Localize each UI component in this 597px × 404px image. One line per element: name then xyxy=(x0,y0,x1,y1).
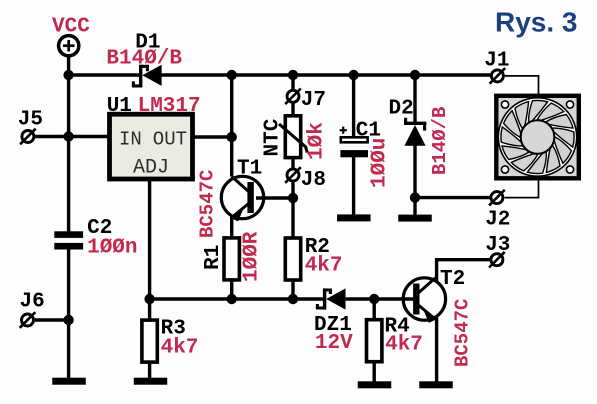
svg-text:OUT: OUT xyxy=(153,129,187,151)
fan M1 (load connected via J1/J2) xyxy=(496,96,579,179)
ground (R3) xyxy=(134,378,168,385)
ground (D2 node) xyxy=(398,215,432,222)
junction OUT node xyxy=(227,132,237,142)
svg-text:J7: J7 xyxy=(301,89,326,112)
svg-text:Rys. 3: Rys. 3 xyxy=(495,6,578,37)
wire bottom net left (ADJ node to DZ1) xyxy=(150,297,323,300)
ground (T2 emitter) xyxy=(419,381,453,388)
wire VCC column upper xyxy=(67,55,70,231)
wire J5 to LM317 IN xyxy=(35,135,109,138)
VCC power symbol xyxy=(59,36,79,56)
svg-text:4k7: 4k7 xyxy=(305,254,343,277)
svg-text:VCC: VCC xyxy=(52,16,90,39)
connector J2 xyxy=(489,190,505,206)
svg-text:J8: J8 xyxy=(301,169,326,192)
wire LM317 ADJ down to R3 xyxy=(148,179,151,320)
svg-text:J2: J2 xyxy=(485,209,510,232)
capacitor C1 100u (polarized) xyxy=(340,127,368,158)
svg-text:J1: J1 xyxy=(484,49,509,72)
wire J2 to fan (thin) xyxy=(505,180,539,198)
wire node to R4 xyxy=(373,299,376,320)
svg-text:J3: J3 xyxy=(485,234,510,257)
svg-text:LM317: LM317 xyxy=(138,95,201,118)
wire rail to D2 cathode xyxy=(413,75,416,122)
wire R4 to ground xyxy=(373,361,376,382)
diode D2 B140/B (schottky, cathode up) xyxy=(404,118,426,146)
wire rail to J7 xyxy=(291,75,294,90)
svg-text:1Øk: 1Øk xyxy=(305,122,328,160)
junction J5 / IN xyxy=(63,131,73,141)
resistor R3 4k7 xyxy=(142,320,157,362)
thermistor NTC 10k xyxy=(279,116,307,158)
svg-text:IN: IN xyxy=(119,129,142,151)
connector J6 xyxy=(20,312,36,328)
ground (R4) xyxy=(358,381,392,388)
zener diode DZ1 12V (cathode left) xyxy=(317,288,345,309)
wire D2 node to J2 xyxy=(415,196,490,199)
svg-text:T1: T1 xyxy=(237,158,262,181)
connector J7 xyxy=(285,89,301,105)
wire top rail right (D1 anode to J1) xyxy=(161,73,490,76)
junction VCC / rail xyxy=(63,70,73,80)
connector J3 xyxy=(489,252,505,268)
junction T1 base / NTC column xyxy=(288,193,298,203)
wire T1 emitter to R1 xyxy=(230,217,233,239)
svg-text:J5: J5 xyxy=(18,109,43,132)
junction ADJ / R3 xyxy=(144,294,154,304)
wire LM317 OUT to node xyxy=(193,135,232,138)
connector J5 xyxy=(20,129,36,145)
wire J1 to fan (thin) xyxy=(505,76,539,96)
svg-text:ADJ: ADJ xyxy=(133,157,169,180)
wire T1 base xyxy=(256,196,293,199)
wire R1 to bottom node xyxy=(230,280,233,300)
wire R3 to ground xyxy=(148,361,151,379)
junction R4 / T2 base xyxy=(369,294,379,304)
resistor R2 4k7 xyxy=(285,238,300,280)
svg-text:T2: T2 xyxy=(440,268,465,291)
wire D2 anode to ground (through J2 node) xyxy=(413,146,416,216)
svg-text:1ØØR: 1ØØR xyxy=(240,231,263,282)
connector J1 xyxy=(490,68,506,84)
transistor T2 BC547C (NPN, base left) xyxy=(403,278,445,323)
wire J8 to R2 (through T1 base node) xyxy=(291,182,294,239)
junction rail / OUT column xyxy=(227,70,237,80)
wire VCC column lower (C2 to ground) xyxy=(67,249,70,378)
wire OUT node up to rail xyxy=(230,75,233,137)
wire node to T1 collector xyxy=(230,137,233,177)
svg-text:U1: U1 xyxy=(107,95,132,118)
resistor R1 100R xyxy=(224,238,239,280)
junction D2 anode / J2 xyxy=(410,192,420,202)
svg-text:4k7: 4k7 xyxy=(161,336,199,359)
svg-text:D2: D2 xyxy=(389,97,414,120)
resistor R4 4k7 xyxy=(367,320,382,362)
wire J7 to NTC xyxy=(291,104,294,117)
svg-text:B14Ø/B: B14Ø/B xyxy=(429,107,451,175)
junction R2 / bottom net xyxy=(288,294,298,304)
svg-text:BC547C: BC547C xyxy=(196,170,218,238)
op-amp/regulator U1 LM317 box xyxy=(110,114,193,179)
wire NTC to J8 xyxy=(291,157,294,169)
connector J8 xyxy=(285,167,301,183)
svg-text:R1: R1 xyxy=(202,245,225,270)
wire J3 to T2 collector xyxy=(437,260,490,283)
wire DZ1 anode to T2 base xyxy=(346,297,414,300)
wire top rail left (to D1 cathode) xyxy=(69,73,141,76)
wire rail to C1 xyxy=(352,75,355,138)
junction J6 / C2 column xyxy=(63,315,73,325)
ground (C1) xyxy=(337,214,371,221)
junction rail / D2 xyxy=(410,70,420,80)
svg-text:1ØØu: 1ØØu xyxy=(369,138,392,188)
wire J6 stub xyxy=(35,318,69,321)
svg-text:12V: 12V xyxy=(315,332,353,355)
svg-text:NTC: NTC xyxy=(262,118,285,156)
ground (C2 column) xyxy=(52,378,86,385)
svg-text:1ØØn: 1ØØn xyxy=(87,237,137,260)
wire R2 to bottom node xyxy=(291,280,294,300)
transistor T1 BC547C (NPN, base right) xyxy=(221,176,263,221)
wire C1 to ground xyxy=(352,157,355,215)
svg-text:J6: J6 xyxy=(20,290,45,313)
diode D1 B140/B (schottky, cathode left) xyxy=(133,65,161,88)
wire T2 emitter to ground xyxy=(435,316,438,382)
capacitor C2 100n xyxy=(54,231,83,249)
svg-text:BC547C: BC547C xyxy=(451,299,473,367)
junction rail / NTC column xyxy=(288,70,298,80)
svg-text:B14Ø/B: B14Ø/B xyxy=(106,48,182,71)
junction R1 / bottom net xyxy=(227,294,237,304)
junction rail / C1 xyxy=(348,70,358,80)
svg-text:4k7: 4k7 xyxy=(385,334,423,357)
